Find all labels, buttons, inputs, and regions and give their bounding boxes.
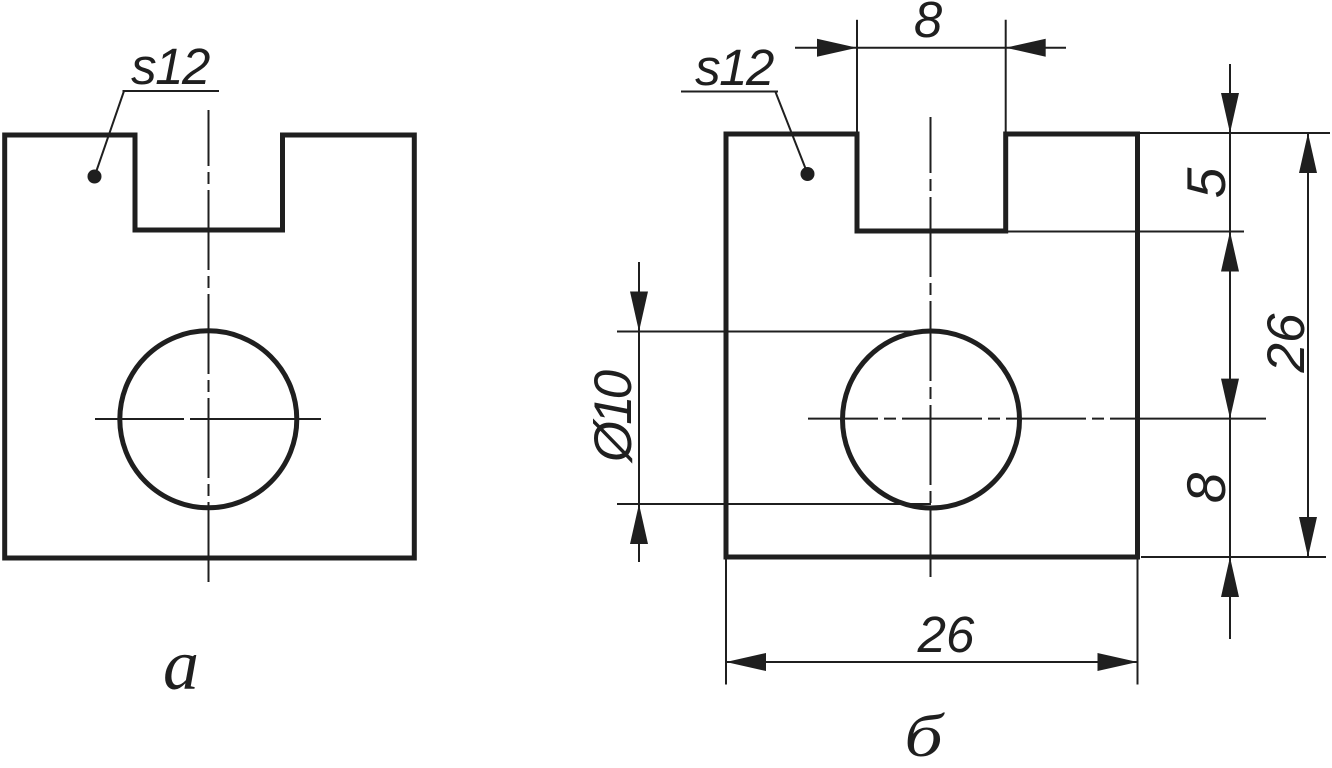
dim D10: down arrowhead (630, 292, 648, 332)
dim D10: bottom extension line (617, 503, 931, 505)
view b: plate outline (726, 134, 1138, 557)
svg-text:s12: s12 (131, 38, 210, 95)
svg-text:26: 26 (1257, 313, 1316, 373)
view b: s12 leader line (776, 92, 808, 174)
svg-text:26: 26 (917, 606, 975, 663)
view a: vertical centerline (208, 110, 210, 585)
view a: plate outline (5, 135, 415, 558)
dim 26 bottom: left extension line (725, 559, 727, 685)
dim 8 top: left-pointing arrowhead (1006, 39, 1046, 57)
svg-text:a: a (163, 625, 199, 705)
svg-text:8: 8 (914, 0, 943, 48)
dim 26 bottom: right arrowhead (1098, 653, 1138, 671)
svg-text:Ø10: Ø10 (584, 369, 643, 464)
dim chain 5/8: dimension line (1229, 64, 1231, 639)
svg-text:5: 5 (1175, 167, 1237, 198)
right side extension line at notch bottom (1007, 231, 1244, 233)
dim D10: top extension line (617, 331, 931, 333)
view b: horizontal centerline (808, 418, 1138, 420)
view a: horizontal centerline (95, 418, 321, 420)
view a: hole circle (120, 331, 297, 508)
view b: hole circle (843, 331, 1020, 508)
dim 8 top: left extension line (856, 20, 858, 133)
right side extension line at top edge (1140, 132, 1330, 134)
dim 26 right: dimension line (1307, 133, 1309, 557)
dim 26 bottom: left arrowhead (726, 653, 766, 671)
dim 8 top: right extension line (1005, 20, 1007, 133)
view b: hole center extension line to right (1138, 418, 1267, 420)
dim 26 bottom: right extension line (1137, 559, 1139, 685)
dim 8 top: dimension line (795, 47, 1066, 49)
dim 8 top: right-pointing arrowhead (817, 39, 857, 57)
dim D10: dimension line (638, 262, 640, 562)
view b: s12 leader dot (801, 167, 815, 181)
view b: vertical centerline (930, 117, 932, 577)
view a: s12 leader dot (88, 170, 102, 184)
dim 5: down arrowhead at top edge (1221, 93, 1239, 133)
dim D10: up arrowhead (630, 504, 648, 544)
dim 5: up arrowhead at notch bottom (1221, 232, 1239, 272)
view b: s12 leader underline (681, 91, 778, 93)
right side extension line at bottom edge (1141, 556, 1326, 558)
view a: s12 leader underline (123, 90, 220, 92)
dim 8 right: up arrowhead at bottom edge (1221, 557, 1239, 597)
dim 26 right: up arrowhead (1299, 133, 1317, 173)
svg-text:8: 8 (1175, 472, 1237, 503)
svg-text:б: б (904, 703, 945, 768)
dim 26 right: down arrowhead (1299, 517, 1317, 557)
view a: s12 leader line (95, 91, 125, 177)
svg-text:s12: s12 (695, 39, 774, 96)
dim 26 bottom: dimension line (726, 661, 1138, 663)
dim 8 right: down arrowhead at hole center (1221, 379, 1239, 419)
